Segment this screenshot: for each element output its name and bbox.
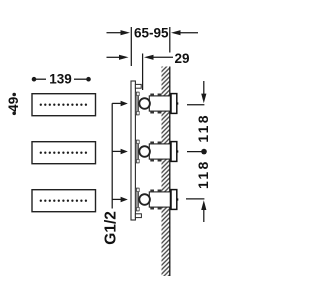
valve 3 trim cap — [171, 190, 177, 210]
wall finished surface line — [169, 67, 171, 277]
dimension 65-95 line left — [107, 32, 122, 34]
mounting rail plate — [131, 81, 135, 220]
valve 1 nut nub bottom 2 — [158, 111, 162, 113]
svg-text:118: 118 — [195, 159, 211, 189]
dimension 49 bottom dot — [12, 112, 16, 116]
valve 3 cartridge circle — [139, 194, 150, 205]
valve 2 body — [149, 144, 170, 159]
dimension 118 upper down arrow — [201, 94, 206, 104]
dimension 118 upper hook — [187, 104, 204, 106]
valve 3 cap nub — [177, 198, 179, 200]
valve 2 nut nub bottom 1 — [150, 159, 154, 161]
dimension 29 right arrow — [144, 55, 154, 60]
valve 2 group — [135, 140, 178, 163]
G1/2 leader line valve 3 — [112, 198, 122, 200]
dimension 65-95 left extension line — [130, 27, 132, 66]
dimension 65-95 right arrow — [171, 30, 181, 35]
valve 2 cap nub — [177, 150, 179, 152]
dimension 65-95 line right — [180, 32, 198, 34]
dimension 139 left dot — [32, 77, 37, 82]
dimension 29 left arrow — [119, 55, 129, 60]
valve 2 flange — [135, 140, 138, 163]
valve 3 flange — [135, 188, 138, 211]
G1/2 arrow valve 2 — [121, 149, 128, 154]
valve 3 body — [149, 192, 170, 207]
G1/2 arrow valve 1 — [121, 101, 128, 106]
valve 3 group — [135, 188, 178, 211]
valve 2 cartridge circle — [139, 146, 150, 157]
dimension 65-95 right extension line — [169, 27, 171, 53]
dimension 49 top dot — [12, 93, 16, 97]
svg-text:139: 139 — [49, 72, 72, 87]
dimension 118 lower hook — [186, 198, 204, 200]
valve 3 nut nub bottom 2 — [158, 207, 162, 209]
valve 3 nut nub top 1 — [150, 190, 154, 192]
valve 2 nut nub top 1 — [150, 142, 154, 144]
dimension 29 right extension line — [142, 54, 144, 91]
valve 3 nut nub bottom 1 — [150, 207, 154, 209]
dimension 65-95 left arrow — [121, 30, 131, 35]
G1/2 leader line valve 2 — [112, 150, 122, 152]
dimension 118 upper stub — [203, 81, 205, 94]
svg-text:29: 29 — [174, 51, 189, 66]
dimension 29 line left — [107, 56, 120, 58]
dimension 118 lower up arrow — [201, 200, 206, 210]
dimension 118 middle dot — [201, 149, 207, 155]
valve 1 nut nub top 1 — [150, 94, 154, 96]
trim plate 2 dots — [40, 152, 87, 154]
valve 2 nut nub bottom 2 — [158, 159, 162, 161]
G1/2 leader vertical line — [111, 103, 113, 208]
valve 1 nut nub top 2 — [158, 94, 162, 96]
dimension 139 right line — [74, 78, 87, 80]
wall hatch — [162, 67, 170, 277]
valve 2 flange step top — [137, 140, 140, 143]
dimension 139 left line — [36, 78, 47, 80]
G1/2 leader line valve 1 — [112, 102, 122, 104]
trim plate 1 — [32, 94, 96, 116]
valve 1 group — [135, 92, 178, 115]
trim plate 2 — [32, 142, 96, 164]
valve 1 trim cap — [171, 94, 177, 114]
G1/2 arrow valve 3 — [121, 197, 128, 202]
valve 1 flange — [135, 92, 138, 115]
valve 2 nut nub top 2 — [158, 142, 162, 144]
svg-text:65-95: 65-95 — [134, 25, 169, 40]
valve 2 trim cap — [171, 142, 177, 162]
dimension 29 line right — [153, 56, 173, 58]
valve 3 flange step bottom — [137, 207, 140, 210]
rail bottom stub — [135, 214, 141, 218]
valve 1 cap nub — [177, 102, 179, 104]
trim plate 1 dots — [40, 104, 87, 106]
dimension 118 middle hook — [187, 151, 204, 153]
valve 1 cartridge circle — [139, 98, 150, 109]
trim plate 3 — [32, 190, 96, 212]
dimension 139 right dot — [86, 77, 91, 82]
valve 3 flange step top — [137, 188, 140, 191]
valve 2 flange step bottom — [137, 159, 140, 162]
svg-text:G1/2: G1/2 — [103, 211, 120, 245]
svg-text:118: 118 — [195, 113, 211, 142]
dimension 118 lower stub — [203, 210, 205, 223]
valve 1 nut nub bottom 1 — [150, 111, 154, 113]
valve 3 nut nub top 2 — [158, 190, 162, 192]
svg-text:49: 49 — [6, 97, 21, 112]
trim plate 3 dots — [40, 200, 87, 202]
valve 1 flange step bottom — [137, 111, 140, 114]
rail top stub — [135, 84, 141, 88]
valve 1 flange step top — [137, 92, 140, 95]
valve 1 body — [149, 96, 170, 111]
